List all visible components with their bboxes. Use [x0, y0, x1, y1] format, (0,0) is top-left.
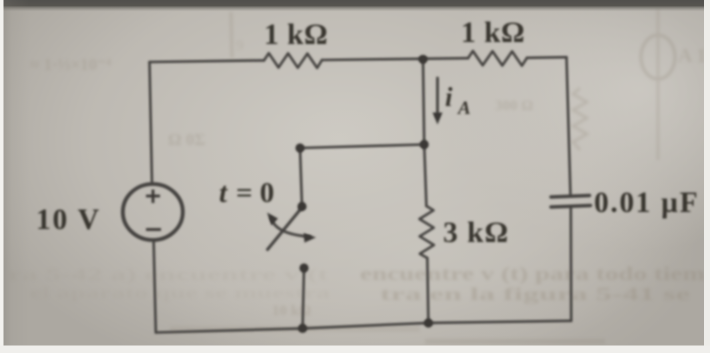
svg-text:10 V: 10 V — [36, 204, 101, 236]
svg-text:≈ 1·⅓×10⁻⁴: ≈ 1·⅓×10⁻⁴ — [30, 55, 111, 74]
main circuit — [123, 51, 591, 333]
wire: switch branch horizontal — [300, 145, 424, 149]
svg-text:encuentre v (t) para todo tiem: encuentre v (t) para todo tiem — [360, 264, 705, 285]
svg-text:1 kΩ: 1 kΩ — [461, 17, 525, 49]
wire: top rail right segment — [527, 56, 567, 59]
switch S1 blade — [268, 208, 302, 250]
wire: left vertical bottom — [154, 240, 156, 333]
minus sign of source V1 — [146, 228, 161, 231]
voltage source V1 circle — [123, 184, 183, 240]
svg-text:300 Ω: 300 Ω — [495, 98, 533, 114]
resistor R2 1 kΩ zigzag — [468, 51, 527, 66]
svg-text:10 kΩ: 10 kΩ — [272, 303, 311, 319]
ghost resistor zigzag right — [573, 88, 587, 150]
node dot switch bottom terminal — [299, 263, 308, 272]
wire: top rail left segment — [150, 60, 265, 62]
wire: bottom rail — [156, 321, 571, 333]
capacitor C1 top plate — [551, 196, 590, 198]
svg-text:el aparato que se muestra: el aparato que se muestra — [30, 285, 330, 302]
white page border: left — [0, 0, 4, 353]
plus sign of source V1 — [146, 190, 160, 204]
wire: middle branch mid — [424, 145, 426, 207]
arrowhead switch arc right end — [304, 233, 317, 243]
white page border: bottom — [0, 346, 710, 353]
node dot bottom rail right junction — [424, 318, 433, 327]
svg-text:ra 5-42 a) encuentre v (t: ra 5-42 a) encuentre v (t — [8, 265, 329, 284]
resistor R1 1 kΩ zigzag — [264, 53, 322, 68]
node dot bottom rail left junction — [298, 324, 307, 333]
current arrow iA — [436, 78, 439, 116]
node dot switch-branch right junction — [420, 140, 429, 149]
svg-text:3 kΩ: 3 kΩ — [443, 217, 509, 249]
resistor R3 3 kΩ zigzag — [420, 206, 434, 258]
svg-text:A: A — [457, 98, 471, 119]
svg-text:i: i — [445, 82, 453, 112]
svg-text:9: 9 — [236, 38, 244, 54]
switch S1 motion arrow arc — [271, 218, 310, 237]
node dot switch-branch left junction — [295, 143, 304, 152]
wire: right vertical bottom — [569, 207, 572, 321]
arrowhead switch arc left end — [267, 213, 278, 226]
switch S1 top lead — [300, 148, 302, 207]
switch S1 bottom lead — [303, 268, 304, 328]
wire: right vertical top — [567, 57, 571, 196]
vignette / photo edges — [0, 0, 710, 12]
wire: middle branch bottom — [427, 258, 428, 323]
wire: top rail middle segment — [322, 58, 468, 60]
svg-text:0.01 µF: 0.01 µF — [594, 187, 699, 219]
svg-text:A 1: A 1 — [678, 45, 706, 67]
ghost vertical line near top middle — [231, 12, 232, 58]
arrowhead of iA current arrow — [433, 113, 443, 125]
wire: left vertical top — [150, 62, 153, 184]
svg-text:1 kΩ: 1 kΩ — [264, 19, 328, 51]
node dot top-middle junction — [418, 55, 427, 64]
wire: middle branch top — [423, 59, 424, 144]
svg-text:= 0: = 0 — [236, 177, 274, 209]
white page border: right — [704, 0, 710, 353]
svg-text:Ω 0Σ: Ω 0Σ — [168, 130, 205, 149]
capacitor C1 bottom plate — [551, 206, 591, 208]
ghost current source circle top right — [641, 35, 675, 79]
svg-text:t: t — [219, 177, 228, 209]
node dot switch top terminal — [297, 202, 306, 211]
